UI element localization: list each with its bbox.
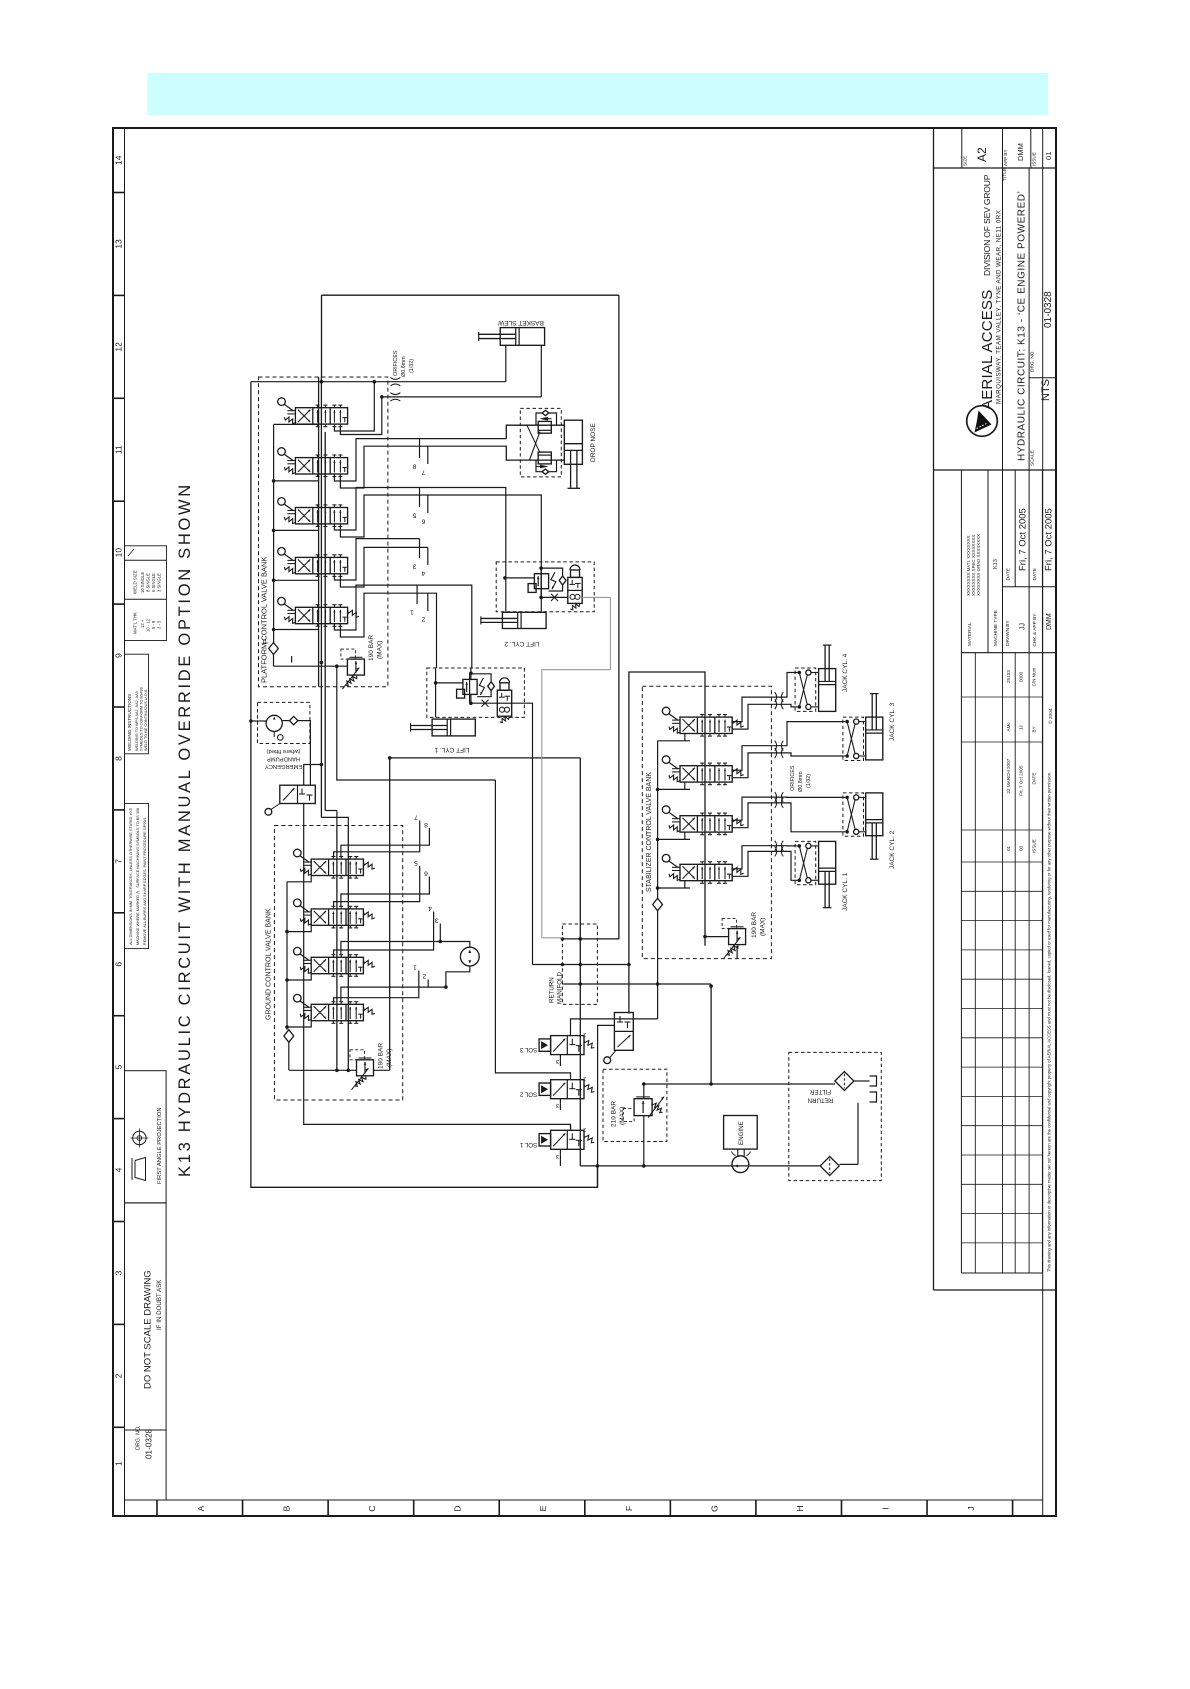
svg-text:LIFT CYL. 1: LIFT CYL. 1	[434, 746, 469, 753]
lift cyl 1 cylinder	[432, 719, 475, 736]
platform relief valve 190 bar	[321, 665, 347, 667]
platform envelope big rectangle	[322, 294, 619, 296]
sol 2 valve	[551, 1080, 584, 1099]
svg-text:3: 3	[556, 1102, 559, 1108]
do not scale box	[125, 1203, 167, 1430]
svg-text:RETURN: RETURN	[808, 1097, 834, 1104]
platform DCV valve 2	[295, 458, 347, 474]
svg-text:0000: 0000	[1019, 671, 1024, 682]
drg no box (bottom-left)	[125, 1430, 167, 1500]
basket slew rails from valve 1	[251, 381, 506, 383]
svg-text:7: 7	[421, 469, 425, 476]
svg-text:EMERGENCY: EMERGENCY	[265, 763, 302, 769]
lift cyl 2 override valve	[568, 577, 582, 603]
rails 8/7 to drop nose	[334, 439, 506, 481]
manifold line L1	[562, 938, 619, 940]
drop nose cylinder	[564, 420, 582, 464]
stab v4 to jack1	[731, 846, 795, 869]
svg-text:1: 1	[413, 964, 417, 971]
zone ticks + numbers (left edge)	[113, 192, 125, 194]
svg-text:XXXXXXXX GRAD XXXXXXXX: XXXXXXXX GRAD XXXXXXXX	[976, 534, 981, 596]
drop nose counterbalance bottom	[538, 452, 551, 464]
return manifold dashed box	[562, 924, 597, 1004]
solenoid bank selector valve	[614, 1013, 633, 1051]
svg-text:SOL 2: SOL 2	[519, 1090, 537, 1097]
ground DCV valve 1	[311, 859, 363, 875]
svg-text:JJ: JJ	[1020, 623, 1027, 630]
svg-text:5: 5	[412, 512, 416, 519]
svg-text:ORIFICES: ORIFICES	[790, 765, 796, 791]
return rail from platform area	[391, 757, 581, 759]
lift cyl 1 dashed box	[427, 668, 525, 717]
svg-text:8: 8	[424, 821, 428, 828]
svg-text:14: 14	[114, 155, 124, 165]
svg-text:4: 4	[114, 1167, 124, 1172]
stabilizer control valve bank dashed box	[642, 686, 771, 958]
svg-text:G: G	[709, 1505, 719, 1512]
sol drain stubs	[559, 1060, 561, 1066]
lift cyl 1 override valve	[497, 690, 511, 716]
svg-text:25133: 25133	[1006, 670, 1011, 683]
svg-text:CHK & APP BY: CHK & APP BY	[1032, 613, 1038, 647]
svg-text:A: A	[196, 1505, 206, 1511]
svg-text:190 BAR: 190 BAR	[751, 912, 758, 938]
sol 1 valve	[551, 1130, 584, 1149]
svg-text:7: 7	[414, 814, 418, 821]
svg-text:(MAX): (MAX)	[377, 641, 384, 659]
rails 1/2 to lift cyl 1	[334, 585, 471, 668]
platform bank left gallery	[273, 424, 275, 642]
svg-text:DRAWN BY: DRAWN BY	[1005, 620, 1011, 646]
manifold line L2	[533, 964, 629, 966]
svg-text:F: F	[624, 1506, 634, 1511]
svg-text:01: 01	[1006, 845, 1011, 851]
bottom T rail	[580, 1165, 821, 1167]
svg-text:AERIAL ACCESS: AERIAL ACCESS	[979, 290, 996, 410]
jack cyl 3	[866, 717, 883, 760]
ground valve output stubs	[334, 821, 420, 857]
svg-text:11: 11	[114, 445, 124, 454]
svg-text:H: H	[795, 1505, 805, 1511]
svg-text:JACK CYL. 3: JACK CYL. 3	[889, 702, 896, 741]
first angle projection	[125, 1071, 167, 1203]
svg-text:D: D	[453, 1505, 463, 1511]
svg-text:5: 5	[114, 1065, 124, 1070]
svg-text:IF IN DOUBT ASK: IF IN DOUBT ASK	[156, 1279, 163, 1330]
svg-text:3: 3	[114, 1270, 124, 1275]
svg-text:SOL 3: SOL 3	[519, 1046, 537, 1053]
svg-text:DO NOT SCALE DRAWING: DO NOT SCALE DRAWING	[143, 1270, 154, 1389]
border frame outer	[113, 128, 1056, 1516]
svg-text:6 SINGLE: 6 SINGLE	[151, 573, 156, 592]
tank return loop bottom-left	[251, 382, 598, 1188]
svg-text:1: 1	[114, 1461, 124, 1466]
svg-text:DATE: DATE	[1032, 568, 1038, 580]
210 bar relief dashed box	[603, 1069, 667, 1141]
svg-text:8 SINGLE: 8 SINGLE	[146, 573, 151, 592]
svg-text:22 MARCH 2007: 22 MARCH 2007	[1006, 758, 1011, 793]
stab v1 to jack4	[731, 673, 795, 722]
stabilizer relief 190 bar	[729, 929, 746, 945]
svg-text:JACK CYL. 2: JACK CYL. 2	[889, 830, 896, 869]
platform DCV valve 1	[295, 408, 347, 424]
platform control valve bank dashed box	[259, 377, 388, 687]
stab v3 to jack2	[731, 797, 843, 820]
svg-text:MAT'L THK: MAT'L THK	[133, 612, 138, 634]
ground bank P feed from return rail	[389, 758, 391, 1070]
svg-text:6 - 9: 6 - 9	[151, 620, 156, 629]
svg-text:(where fitted): (where fitted)	[267, 748, 301, 754]
svg-text:GROUND CONTROL VALVE BANK: GROUND CONTROL VALVE BANK	[266, 908, 273, 1020]
svg-text:SCALE: SCALE	[1030, 450, 1036, 466]
svg-text:ISSUE: ISSUE	[1032, 152, 1037, 166]
platform DCV valve 3	[295, 508, 347, 524]
banner cell: logo + company name	[1002, 168, 1004, 470]
svg-text:DROP NOSE: DROP NOSE	[590, 422, 597, 462]
svg-text:2: 2	[421, 616, 425, 623]
ground bank relief 190 bar	[357, 1060, 374, 1076]
svg-text:SYMBOLS TO CONFORM TO BS499: SYMBOLS TO CONFORM TO BS499	[140, 687, 144, 751]
tank drop from relief	[337, 666, 496, 780]
svg-text:ISSUE: ISSUE	[1031, 839, 1036, 853]
svg-text:190 BAR: 190 BAR	[368, 635, 375, 661]
drop nose counterbalance top	[538, 421, 551, 433]
sol 3 valve	[551, 1036, 584, 1055]
stabilizer inlet diamond	[653, 898, 663, 911]
svg-text:3: 3	[434, 917, 438, 924]
svg-text:A2: A2	[975, 147, 989, 162]
svg-text:Fri, 7 Oct 2005: Fri, 7 Oct 2005	[1019, 765, 1024, 796]
svg-text:FIRST ANGLE PROJECTION: FIRST ANGLE PROJECTION	[157, 1107, 163, 1184]
svg-text:J: J	[966, 1506, 976, 1510]
ground DCV valve 4	[311, 1004, 363, 1020]
lift cyl 1 drain to manifold	[512, 703, 533, 964]
svg-text:JJ: JJ	[1019, 725, 1024, 730]
svg-text:10 SINGLE: 10 SINGLE	[140, 572, 145, 593]
drop nose rails	[506, 425, 565, 438]
platform DCV valve 4	[295, 557, 347, 573]
svg-text:210 BAR: 210 BAR	[611, 1101, 618, 1127]
drop nose dashed box	[520, 408, 561, 477]
lift cyl 2 cylinder	[502, 612, 546, 628]
svg-text:FILTER: FILTER	[810, 1088, 831, 1095]
svg-text:3 - 5: 3 - 5	[157, 620, 162, 629]
svg-text:B: B	[282, 1505, 292, 1511]
selector ports	[304, 765, 322, 786]
svg-text:3: 3	[556, 1058, 559, 1064]
svg-text:NTS: NTS	[1040, 379, 1052, 401]
svg-text:4: 4	[421, 570, 425, 577]
svg-text:DRG. NO: DRG. NO	[1030, 351, 1036, 372]
jack cyl 2	[866, 793, 883, 836]
svg-text:E: E	[538, 1505, 548, 1511]
svg-text:WELD SIZE: WELD SIZE	[133, 570, 138, 594]
svg-text:MACHINE WHERE MARKED ⋀ SURFA: MACHINE WHERE MARKED ⋀ SURFACE MACHINING…	[136, 808, 140, 945]
stabilizer DCV valve 4	[680, 864, 732, 880]
svg-text:HANDPUMP: HANDPUMP	[267, 756, 300, 762]
filter bypass brackets	[870, 1076, 877, 1086]
lift cyl 1 counterbalance	[463, 679, 477, 694]
middle section: material / machine type / drawn by / chk	[960, 470, 962, 653]
svg-text:6: 6	[424, 870, 428, 877]
svg-text:K13: K13	[993, 559, 999, 569]
svg-text:RETURN: RETURN	[549, 977, 556, 1003]
svg-text:C/N Num: C/N Num	[1031, 667, 1036, 686]
svg-text:Ø0.8mm: Ø0.8mm	[798, 771, 804, 792]
svg-text:3 SINGLE: 3 SINGLE	[157, 573, 162, 592]
aerial access logo	[967, 406, 998, 437]
ground bank buses	[336, 826, 338, 1071]
svg-text:MATERIAL: MATERIAL	[967, 622, 973, 646]
svg-text:WELD TO BE CONTINUOUS U.O.S.: WELD TO BE CONTINUOUS U.O.S.	[144, 689, 148, 751]
svg-text:© 2004: © 2004	[1047, 708, 1054, 724]
stab relief drain	[736, 946, 738, 959]
svg-text:5: 5	[414, 859, 418, 866]
svg-text:01: 01	[1044, 152, 1053, 160]
svg-text:190 BAR: 190 BAR	[378, 1043, 385, 1069]
rails 3/4 stubs	[334, 539, 419, 580]
manual override selector valve	[280, 785, 316, 803]
cyan highlight bar	[148, 73, 1048, 115]
svg-text:BASKET SLEW: BASKET SLEW	[497, 319, 544, 326]
ground DCV valve 2	[311, 909, 363, 925]
svg-text:(1/32): (1/32)	[806, 774, 812, 788]
stabilizer bank galleries	[657, 741, 659, 898]
svg-text:JACK CYL. 4: JACK CYL. 4	[842, 653, 849, 692]
svg-text:13: 13	[114, 239, 124, 249]
gear pump circle	[460, 947, 479, 966]
svg-text:MARQUISWAY, TEAM VALLEY, TYNE: MARQUISWAY, TEAM VALLEY, TYNE AND WEAR, …	[996, 210, 1003, 404]
svg-text:12: 12	[114, 342, 124, 352]
svg-text:JACK CYL. 1: JACK CYL. 1	[842, 872, 849, 911]
svg-text:8: 8	[412, 463, 416, 470]
svg-text:Ø0.8mm: Ø0.8mm	[401, 356, 407, 377]
svg-text:LIFT CYL. 2: LIFT CYL. 2	[504, 640, 539, 647]
ground control valve bank dashed box	[274, 826, 402, 1101]
T trunk vertical	[579, 758, 581, 1166]
svg-text:WELDING TO WPS AA1, AA2, AA3: WELDING TO WPS AA1, AA2, AA3	[135, 691, 139, 751]
zone ticks + letters (bottom edge)	[156, 1500, 158, 1516]
svg-text:Fri, 7 Oct 2005: Fri, 7 Oct 2005	[1018, 508, 1029, 571]
svg-text:REMOVE ALL BURRS AND SHARP EDG: REMOVE ALL BURRS AND SHARP EDGES. PAINT …	[143, 817, 147, 945]
svg-text:4: 4	[428, 905, 432, 912]
svg-text:DATE: DATE	[1005, 568, 1011, 580]
welding instructions note	[125, 654, 149, 754]
svg-text:MANIFOLD: MANIFOLD	[557, 971, 564, 1004]
svg-text:BY: BY	[1031, 726, 1036, 732]
drg no cell	[1029, 377, 1056, 379]
svg-text:12 +: 12 +	[140, 619, 145, 628]
svg-text:HYDRAULIC CIRCUIT: K13 - ‘CE E: HYDRAULIC CIRCUIT: K13 - ‘CE ENGINE POWE…	[1017, 191, 1028, 461]
svg-text:01-0328: 01-0328	[1043, 291, 1054, 328]
svg-text:9: 9	[114, 653, 124, 658]
svg-text:TITLE: TITLE	[1002, 168, 1008, 181]
svg-text:SOL 1: SOL 1	[519, 1141, 537, 1148]
jack cyl 4	[819, 669, 836, 712]
svg-text:8: 8	[114, 756, 124, 761]
engine pump circle	[732, 1156, 749, 1173]
stab v2 to jack3	[731, 722, 843, 771]
svg-text:AMc: AMc	[1006, 722, 1011, 732]
svg-text:2: 2	[583, 1075, 586, 1081]
svg-text:6: 6	[114, 962, 124, 967]
manifold line L3	[562, 983, 711, 985]
svg-text:7: 7	[114, 859, 124, 864]
svg-text:01-0328: 01-0328	[145, 1429, 154, 1459]
stabilizer DCV valve 2	[680, 766, 732, 782]
svg-text:2: 2	[583, 1031, 586, 1037]
jack cyl 1 block	[795, 841, 816, 884]
svg-text:I: I	[880, 1507, 890, 1509]
svg-text:00: 00	[1019, 845, 1024, 851]
svg-text:P: P	[263, 639, 270, 644]
svg-text:APP BY: APP BY	[1003, 149, 1008, 166]
rail to return filter top	[644, 1083, 835, 1085]
drop nose cross pilot lines	[527, 425, 540, 453]
return filter dashed box	[789, 1052, 882, 1180]
P/T bus jog into ground bank	[321, 817, 348, 825]
svg-text:DIVISION OF SEV GROUP: DIVISION OF SEV GROUP	[982, 174, 992, 276]
top cells SIZE / APP BY / ISSUE	[961, 128, 963, 168]
stabilizer DCV valve 1	[680, 717, 732, 733]
svg-text:WELDING INSTRUCTIONS: WELDING INSTRUCTIONS	[127, 694, 132, 751]
svg-text:DMM: DMM	[1046, 613, 1053, 630]
border frame inner zone lines	[124, 128, 126, 1516]
svg-text:This drawing and any informati: This drawing and any information or desc…	[1047, 772, 1052, 1272]
svg-text:ALL DIMENSIONS IN MM. TOLERANC: ALL DIMENSIONS IN MM. TOLERANCES, UNLESS…	[129, 808, 133, 945]
svg-text:6: 6	[421, 518, 425, 525]
svg-text:DATE: DATE	[1031, 773, 1036, 785]
platform bank P/T buses	[318, 377, 320, 687]
svg-text:3: 3	[556, 1153, 559, 1159]
stabilizer DCV valve 3	[680, 816, 732, 832]
jack cyl 1	[819, 841, 836, 884]
svg-text:DRG. NO.: DRG. NO.	[136, 1425, 142, 1450]
svg-text:(1/32): (1/32)	[409, 359, 415, 373]
basket slew cylinder	[500, 328, 544, 346]
svg-text:ENGINE: ENGINE	[738, 1121, 745, 1145]
svg-text:PLATFORM CONTROL VALVE BANK: PLATFORM CONTROL VALVE BANK	[260, 557, 269, 683]
dimensions / tolerances note	[125, 804, 149, 949]
weld size / matl thk table	[125, 546, 167, 641]
svg-text:(MAX): (MAX)	[619, 1107, 626, 1125]
rails 5/6 to lift cyl 2	[334, 488, 505, 612]
svg-text:DMM: DMM	[1016, 143, 1025, 161]
ground bank left gallery	[286, 882, 288, 1030]
svg-text:3: 3	[412, 563, 416, 570]
svg-text:Fri, 7 Oct 2005: Fri, 7 Oct 2005	[1044, 508, 1055, 571]
platform DCV valve 5	[295, 607, 347, 623]
ground DCV valve 3	[311, 957, 363, 973]
svg-text:10: 10	[114, 548, 124, 558]
svg-text:10 - 12: 10 - 12	[146, 618, 151, 632]
jack cyl 4 block	[795, 668, 816, 711]
issue table	[960, 653, 962, 1273]
svg-text:C: C	[367, 1505, 377, 1511]
svg-text:2: 2	[114, 1373, 124, 1378]
stabilizer feed line	[629, 672, 705, 1014]
svg-text:K13 HYDRAULIC CIRCUIT WITH MAN: K13 HYDRAULIC CIRCUIT WITH MANUAL OVERRI…	[176, 482, 194, 1177]
lift cyl 2 counterbalance	[534, 574, 548, 589]
svg-text:MACHINE TYPE: MACHINE TYPE	[993, 610, 999, 646]
svg-text:(MAX): (MAX)	[760, 918, 767, 936]
svg-text:2: 2	[583, 1126, 586, 1132]
svg-text:SIZE: SIZE	[963, 156, 968, 166]
jack cyl 2 block	[843, 793, 864, 836]
gray pilot line net	[542, 597, 611, 937]
jack cyl 3 block	[843, 717, 864, 760]
emergency handpump dashed box	[258, 702, 310, 743]
lift cyl 2 dashed box	[496, 562, 594, 612]
selector ports	[598, 1025, 615, 1187]
svg-text:1: 1	[410, 609, 414, 616]
ground bank inlet check diamond	[284, 1030, 294, 1043]
engine box	[724, 1116, 758, 1150]
svg-text:STABILIZER CONTROL VALVE BANK: STABILIZER CONTROL VALVE BANK	[646, 772, 653, 892]
svg-text:ORIFICES: ORIFICES	[393, 350, 399, 376]
title block left edge / bottom	[933, 128, 935, 1290]
svg-text:2: 2	[422, 973, 426, 980]
lift cyl 1 restrictor line	[470, 694, 472, 703]
